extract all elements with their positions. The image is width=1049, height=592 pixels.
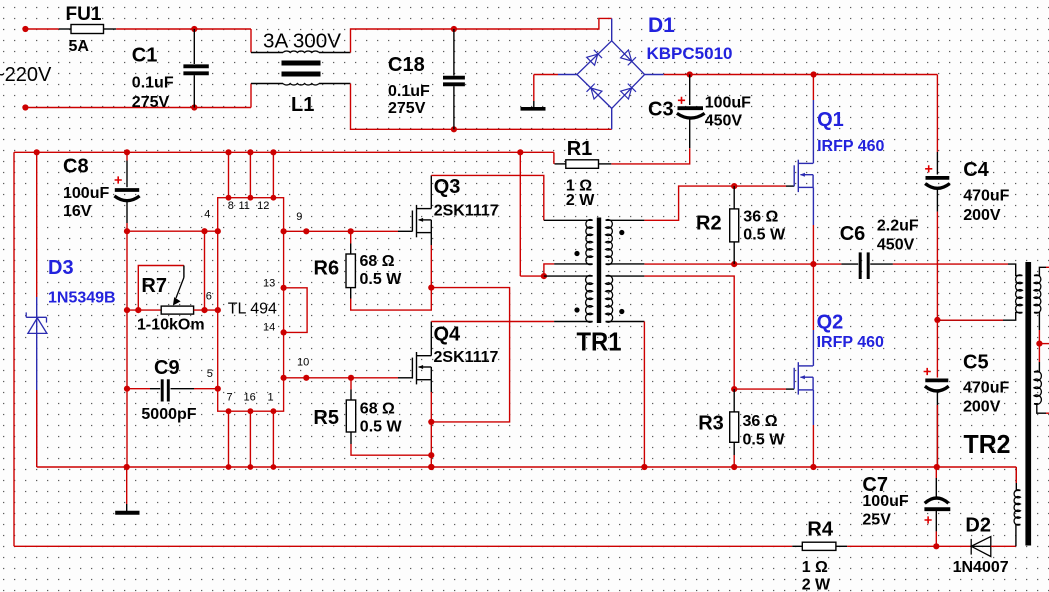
svg-text:R7: R7 [141, 275, 167, 297]
svg-text:0.5 W: 0.5 W [360, 419, 403, 436]
zener D3 [26, 312, 47, 333]
core L1 [282, 61, 321, 66]
svg-text:450V: 450V [705, 113, 743, 130]
node pin1 wire rail [271, 464, 277, 470]
wire Q4 drain to TR1 w2 [431, 321, 554, 323]
wire C6 lead left [841, 263, 858, 265]
wire fuse lead right [104, 28, 117, 30]
resistor R4 [802, 542, 836, 550]
svg-text:IRFP 460: IRFP 460 [817, 334, 884, 351]
winding TR1 primary1 [586, 220, 593, 265]
svg-text:0.1uF: 0.1uF [388, 83, 430, 100]
node C18 bottom junction [451, 126, 457, 132]
wire up to L1 winding2 [250, 84, 252, 108]
wire common rail TR1 sA bottom [644, 263, 841, 265]
diode D1b [620, 50, 636, 66]
winding TR2 rw2 [1034, 371, 1041, 404]
winding TR2 lw1 [1016, 275, 1023, 313]
node Q3 source junction [428, 285, 434, 291]
svg-text:450V: 450V [877, 237, 915, 254]
svg-text:0.5 W: 0.5 W [360, 271, 403, 288]
wire C3 top lead [689, 75, 691, 106]
wire D3 bottom red [36, 390, 38, 467]
wire TR1 p2 top stub [544, 275, 593, 277]
capacitor C4 plate- [925, 184, 950, 189]
svg-text:13: 13 [263, 278, 275, 290]
wire Q2 drain blue [812, 330, 814, 366]
svg-text:D3: D3 [48, 257, 74, 279]
node rail1-TR1 junction [517, 149, 523, 155]
node pin10 seg [303, 375, 309, 381]
fuse FU1 [71, 25, 104, 34]
wire AC live to fuse [25, 28, 58, 30]
polarity + C3 [678, 97, 685, 104]
node C1 top junction [191, 26, 197, 32]
wire Q1 source blue [812, 187, 814, 225]
svg-text:C8: C8 [63, 156, 89, 178]
wire C6 to TR2 [893, 263, 1008, 265]
wire R7 wiper loop [138, 266, 184, 311]
svg-text:5000pF: 5000pF [141, 406, 196, 423]
wire TR2 rw1 top lead [1034, 267, 1046, 275]
wire R3 lead bottom [733, 442, 735, 455]
wire C9 lead left [150, 388, 160, 390]
svg-text:470uF: 470uF [963, 380, 1009, 397]
svg-text:R3: R3 [698, 412, 724, 434]
node Q2 source rail [810, 464, 816, 470]
node pin16 wire box [248, 408, 254, 414]
wire left outer vertical [13, 152, 15, 546]
wire pin10 to Q4 gate [284, 377, 398, 379]
wire C9 right red [194, 388, 218, 390]
wire C1 bottom lead [193, 75, 195, 107]
wire TR2 lw2 bottom lead [1016, 524, 1021, 546]
inductor L1 winding2 [283, 84, 319, 85]
wire Q4 gate lead [398, 377, 412, 379]
wire TR1 sA to Q1 gate [644, 186, 786, 220]
node TR1 center tap [541, 273, 547, 279]
wire R2 lead bottom [733, 242, 735, 264]
svg-text:L1: L1 [291, 94, 314, 116]
capacitor C18 plate1 [443, 76, 465, 80]
phase dot TR1 p2 [574, 307, 579, 312]
capacitor C5 plate+ [925, 378, 948, 382]
svg-text:2 W: 2 W [566, 192, 595, 209]
wire C1 top lead [193, 29, 195, 64]
wire ground2 stem black [126, 504, 128, 511]
svg-text:6: 6 [206, 290, 212, 302]
svg-text:8: 8 [228, 200, 234, 212]
node pin5 [215, 386, 221, 392]
wire Q3 source down black [430, 233, 432, 245]
phase dot TR1 p1 [574, 251, 579, 256]
wire AC neutral to L1 [25, 107, 251, 109]
node Q4 rail [428, 464, 434, 470]
wire C8 column down [126, 223, 128, 467]
node pin6 junction [201, 307, 207, 313]
polarity + C8 [115, 176, 122, 183]
svg-text:R5: R5 [313, 407, 339, 429]
capacitor C4 plate+ [926, 176, 950, 180]
svg-text:5: 5 [207, 368, 213, 380]
wire R6 bottom to Q3 source [351, 245, 432, 310]
wire Q3 drain up [430, 175, 432, 208]
wire C5 bottom red [936, 405, 938, 467]
wire DC+ down to C4 [936, 75, 938, 153]
wire C7 lead bottom [935, 511, 937, 531]
svg-text:C1: C1 [132, 45, 158, 67]
transistor Q4 [412, 352, 431, 384]
inductor L1 winding1 [283, 51, 319, 52]
capacitor C9 [161, 379, 164, 401]
svg-text:14: 14 [263, 321, 275, 333]
wire pin13-pin14 loop [284, 288, 308, 333]
svg-text:275V: 275V [388, 100, 426, 117]
svg-text:C6: C6 [840, 223, 866, 245]
wire pin1 wire [272, 411, 274, 467]
node Q1 drain junction [811, 71, 817, 77]
svg-text:TL 494: TL 494 [228, 301, 277, 318]
node pin8 wire top [226, 195, 232, 201]
node pin4 [215, 228, 221, 234]
node TR2 tap junction [934, 317, 940, 323]
wire Q2 drain red [812, 264, 814, 330]
svg-text:36 Ω: 36 Ω [743, 209, 778, 226]
svg-text:2SK1117: 2SK1117 [434, 349, 499, 366]
bridge rectifier D1 [577, 41, 645, 109]
wire R7 left [127, 309, 161, 311]
node pin11 rail [247, 149, 253, 155]
wire R4 to D2 [847, 545, 971, 547]
svg-text:Q1: Q1 [817, 109, 844, 131]
wire TR2 rw1 out [1046, 266, 1049, 268]
wire D1 plus stub [645, 74, 664, 76]
wire C8 top red [126, 152, 128, 160]
svg-text:C4: C4 [963, 159, 989, 181]
capacitor C7 plate+ [924, 507, 950, 511]
polarity + C7 [925, 516, 932, 523]
resistor R1 [566, 160, 599, 169]
node AC-L terminal [22, 26, 28, 32]
node pin14 [281, 329, 287, 335]
wire Q1 source red [812, 225, 814, 264]
node pin12 wire top [271, 195, 277, 201]
wire fuse lead left [59, 28, 71, 30]
wire TR2 mid red2 [1038, 344, 1040, 362]
wire TR1 p2 bottom stub [554, 321, 593, 323]
svg-text:100uF: 100uF [63, 185, 109, 202]
wire bottom return rail [14, 545, 792, 547]
node ground column [124, 464, 130, 470]
svg-text:Q3: Q3 [434, 176, 461, 198]
wire D1 AC1 stub [611, 18, 613, 40]
svg-text:R4: R4 [807, 518, 833, 540]
wire Q1 drain blue [812, 100, 814, 163]
wire Q3 source to Q4 source [431, 288, 509, 422]
wire R5 top red [350, 378, 352, 390]
svg-text:C5: C5 [963, 352, 989, 374]
wire C8 top lead [126, 161, 128, 188]
wire TR1 sB to Q2 gate [644, 276, 734, 389]
wire R2 lead top [733, 186, 735, 209]
wire TR1 sB top stub [606, 275, 645, 277]
wire pin7 wire [228, 411, 230, 467]
node C1 bottom junction [191, 104, 197, 110]
wire TR2 rw1 bottom lead [1034, 312, 1039, 330]
capacitor C1 plate2 [183, 71, 208, 75]
wire TR2 tap red [937, 319, 1003, 321]
svg-text:11: 11 [239, 200, 250, 212]
wire D3 lead [36, 297, 38, 467]
node R5 top [348, 375, 354, 381]
svg-text:68 Ω: 68 Ω [360, 401, 395, 418]
svg-text:TR1: TR1 [577, 327, 622, 357]
node pin1 wire box [271, 408, 277, 414]
wire R7 right to pin6 [194, 309, 218, 311]
wire R7 wiper stem [183, 266, 185, 278]
wire R1 lead right [599, 163, 612, 165]
transistor Q1 [794, 160, 813, 192]
svg-text:1N4007: 1N4007 [953, 559, 1009, 576]
wire D2 to TR2 [991, 545, 1016, 547]
node Q1source-Q2drain [810, 261, 816, 267]
node pin9 seg [303, 228, 309, 234]
node C3 top junction [687, 71, 693, 77]
wire R5 lead top [350, 390, 352, 401]
winding TR1 sec A [606, 220, 613, 265]
node pin4 junction [201, 228, 207, 234]
node R3 top [731, 386, 737, 392]
wire C9 lead right [171, 388, 195, 390]
wire R1 lead left [555, 163, 566, 165]
svg-text:5A: 5A [69, 38, 90, 55]
diode D2 [971, 537, 991, 557]
wire Q1 drain red [812, 75, 814, 101]
node pin13 [281, 285, 287, 291]
wire C4 to TR2 tap [936, 212, 938, 320]
wire TR2 lw2 red [1015, 467, 1017, 483]
wire pin9 to Q3 gate [284, 230, 398, 232]
wire fuse to L1 top [116, 28, 251, 30]
svg-text:200V: 200V [963, 399, 1001, 416]
svg-text:4: 4 [204, 209, 210, 221]
svg-text:C9: C9 [154, 357, 180, 379]
wire Q3 drain to TR1 [431, 175, 544, 220]
wire D1 AC2 stub [611, 108, 613, 129]
wire pin8 wire [228, 152, 230, 197]
wire C9 left red [127, 388, 150, 390]
svg-text:R2: R2 [696, 213, 722, 235]
wire C18 top lead [453, 29, 455, 76]
svg-text:275V: 275V [132, 94, 170, 111]
node pin6 [215, 307, 221, 313]
wire C4 lead top [936, 152, 938, 175]
wire C7 lead top [935, 478, 937, 498]
wire TR1 p1 top stub [544, 219, 593, 221]
wire C7 top red [935, 467, 937, 478]
svg-text:TR2: TR2 [964, 429, 1011, 459]
svg-text:0.5 W: 0.5 W [743, 431, 786, 448]
node pin11 wire top [248, 195, 254, 201]
svg-text:0.5 W: 0.5 W [743, 227, 786, 244]
wire C18 bottom lead [453, 86, 455, 129]
wire rail1 [14, 151, 554, 153]
winding TR1 primary2 [586, 275, 593, 322]
wire C8 bottom lead [126, 202, 128, 224]
wire R4 lead left [792, 545, 802, 547]
svg-text:1: 1 [268, 392, 274, 404]
wire R4 lead right [836, 545, 847, 547]
wire R6 lead top [350, 244, 352, 255]
svg-text:~220V: ~220V [0, 64, 52, 86]
wire rail1 to center tap vertical [519, 152, 521, 276]
svg-text:C3: C3 [648, 99, 674, 121]
wire TR2 rw2 out [1046, 412, 1049, 414]
winding TR1 sec B [606, 275, 613, 322]
winding TR2 lw2 [1014, 490, 1020, 525]
wire ground2 stem red [126, 467, 128, 504]
arrow R7 wiper [176, 278, 184, 299]
wire TR2 lw2 top lead [1016, 467, 1020, 490]
svg-text:1-10kOm: 1-10kOm [137, 316, 205, 333]
wire TR1 center tap link [544, 264, 554, 276]
transformer TR2 core [1025, 262, 1031, 546]
node C8/pin4 [124, 228, 130, 234]
node dup [428, 464, 434, 470]
capacitor C3 plate- [677, 113, 705, 118]
wire C7 bottom red [935, 531, 937, 546]
wire TR1 sB bottom to rail [643, 322, 645, 468]
svg-text:9: 9 [296, 211, 302, 223]
winding TR2 rw1 [1034, 275, 1041, 313]
wire L1 to bridge AC1 [351, 18, 612, 52]
node R7 left [124, 307, 130, 313]
ground symbol GND1 [521, 107, 546, 111]
wire Q2 source red [812, 425, 814, 467]
svg-text:36 Ω: 36 Ω [743, 413, 778, 430]
resistor R5 [346, 400, 355, 432]
wire L1 winding2 lead left [251, 83, 283, 85]
svg-text:7: 7 [227, 392, 233, 404]
wire TR2 rw2 bottom lead [1034, 404, 1046, 414]
transistor Q2 [794, 362, 813, 394]
node pin9 [281, 228, 287, 234]
phase dot TR1 sB [619, 309, 624, 314]
node R3 rail [731, 464, 737, 470]
node pin16 wire rail [248, 464, 254, 470]
node D3 top [34, 149, 40, 155]
svg-text:68 Ω: 68 Ω [360, 253, 395, 270]
wire TR2 rw2 top lead [1034, 362, 1039, 372]
wire Q2 gate wire [734, 388, 786, 390]
node R6 top [348, 228, 354, 234]
wire TR2 tap out [1039, 343, 1049, 345]
node pin12 rail [270, 149, 276, 155]
node R7 wiper tie [135, 307, 141, 313]
svg-text:D1: D1 [648, 14, 675, 37]
wire C5 lead bottom [936, 392, 938, 467]
wire pin16 wire [249, 411, 251, 467]
wire down to L1 winding1 [250, 29, 252, 53]
wire Q4 source column [430, 392, 432, 467]
wire TR2 lw1 top lead [1008, 264, 1022, 276]
wire C8 to pin4 [127, 230, 218, 232]
svg-text:16V: 16V [63, 203, 92, 220]
wire L1 to bridge AC2 [351, 84, 612, 130]
svg-text:2 W: 2 W [802, 577, 831, 592]
wire TR1 sA top stub [606, 219, 645, 221]
wire pin12 wire [272, 152, 274, 197]
phase dot TR1 sA [619, 230, 624, 235]
capacitor C5 plate- [925, 386, 949, 391]
svg-text:D2: D2 [965, 515, 991, 537]
node R2 bottom [731, 261, 737, 267]
capacitor C3 plate+ [678, 106, 704, 110]
svg-text:25V: 25V [862, 511, 891, 528]
svg-text:0.1uF: 0.1uF [132, 75, 174, 92]
node C8 top [124, 149, 130, 155]
wire to C5 [936, 320, 938, 378]
node TR2 secondary tap [1036, 341, 1042, 347]
wire R1 to rail1 [553, 152, 555, 164]
polarity + C5 [924, 368, 931, 375]
svg-text:470uF: 470uF [963, 188, 1009, 205]
svg-text:200V: 200V [963, 207, 1001, 224]
wire D3 top [36, 152, 38, 297]
capacitor C8 plate- [114, 196, 139, 201]
transformer TR1 core [597, 218, 601, 324]
node pin7 wire box [226, 408, 232, 414]
resistor R6 [346, 254, 355, 288]
wire Q2 source blue [812, 390, 814, 425]
wire TR1 sB bottom stub [606, 321, 645, 323]
ic U1 TL 494 body [218, 198, 284, 412]
svg-text:12: 12 [257, 200, 269, 212]
wire C3 to R1 [611, 148, 689, 164]
wire bottom rail [37, 466, 1017, 468]
wire pin11 wire [249, 152, 251, 197]
wire TR2 lw1 bottom lead [937, 312, 1022, 320]
svg-text:1 Ω: 1 Ω [802, 559, 828, 576]
svg-text:Q2: Q2 [817, 312, 844, 334]
wire R5 bottom to Q4 source [351, 444, 431, 455]
wire TR2 mid red [1038, 330, 1040, 344]
wire Q2 gate lead [786, 388, 794, 390]
wire ground stem red [533, 75, 535, 102]
wire R6 lead bottom [350, 288, 352, 299]
wire C4 lead bottom [936, 190, 938, 212]
wire R3 to rail [733, 455, 735, 467]
ground symbol GND2 [115, 511, 139, 515]
wire pin4 to pin6 vertical [204, 231, 206, 310]
diode D1d [620, 84, 636, 100]
node AC-N terminal [22, 104, 28, 110]
node C9 left [124, 386, 130, 392]
resistor R2 [730, 209, 739, 242]
wire Q4 source down black [430, 380, 432, 392]
wire C6 lead right [870, 263, 893, 265]
node pin10 [281, 375, 287, 381]
node Q4 source junction [428, 419, 434, 425]
svg-text:Q4: Q4 [434, 323, 462, 345]
potentiometer R7 [161, 306, 193, 314]
svg-text:2.2uF: 2.2uF [877, 218, 919, 235]
resistor R3 [730, 412, 739, 442]
wire TR1 sA bottom stub [606, 263, 645, 265]
capacitor C7 plate- [925, 498, 949, 503]
transistor Q3 [412, 205, 431, 237]
diode D1a [587, 50, 603, 66]
